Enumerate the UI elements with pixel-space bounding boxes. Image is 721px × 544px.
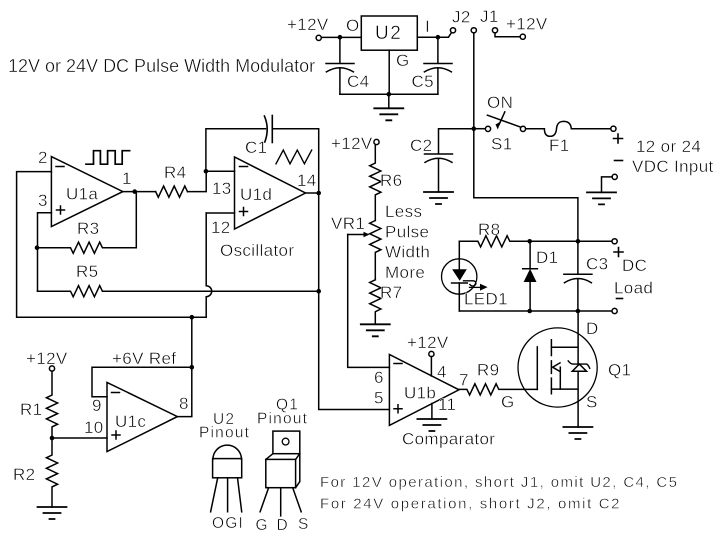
node C5 top	[436, 35, 441, 40]
terminal +12V at R1	[49, 366, 54, 371]
resistor R9 with wires	[459, 384, 537, 395]
Q1 body arrow	[553, 363, 560, 372]
svg-text:Oscillator: Oscillator	[220, 241, 294, 260]
svg-text:ON: ON	[487, 93, 513, 112]
svg-text:1: 1	[122, 169, 132, 188]
wire J2 pad down to S1 node	[473, 33, 475, 129]
svg-text:12 or 24: 12 or 24	[636, 137, 701, 156]
node U2 ground junction	[387, 92, 392, 97]
svg-text:Pulse: Pulse	[385, 222, 429, 241]
wire U1c feedback pin9	[92, 367, 192, 397]
svg-text:R9: R9	[477, 360, 499, 379]
svg-text:Load: Load	[614, 279, 653, 298]
svg-text:U1a: U1a	[66, 185, 98, 204]
wire U1a output	[123, 191, 156, 193]
svg-text:S1: S1	[491, 135, 513, 154]
node bottom-left junction	[190, 315, 195, 320]
svg-text:R1: R1	[20, 400, 42, 419]
jumper J2 pad A	[450, 28, 455, 33]
svg-text:D: D	[586, 319, 599, 338]
wire C4 C5 bottom	[340, 93, 438, 95]
resistor R8 with rail wires	[459, 236, 612, 247]
svg-text:VDC Input: VDC Input	[632, 157, 714, 176]
minus mark VDC input	[615, 160, 623, 162]
ground U1b pin11	[431, 404, 433, 420]
terminal +12V at U2 output	[316, 35, 321, 40]
node pin13 junction	[204, 169, 209, 174]
ground Q1 source	[563, 427, 592, 439]
svg-text:+6V Ref: +6V Ref	[112, 349, 176, 368]
svg-text:+12V: +12V	[407, 333, 449, 352]
ground R7	[361, 324, 390, 336]
svg-text:14: 14	[297, 171, 317, 190]
svg-text:OGI: OGI	[212, 515, 244, 532]
resistor R2 with wires	[46, 438, 57, 507]
wire pin4 stem	[430, 357, 432, 376]
wire C1 left	[206, 129, 266, 172]
terminal DC load negative	[612, 308, 617, 313]
svg-text:2: 2	[38, 148, 48, 167]
svg-text:C4: C4	[347, 72, 369, 91]
svg-text:5: 5	[374, 388, 384, 407]
Q1 body connection	[559, 367, 561, 389]
node U1a output	[132, 189, 137, 194]
svg-text:R3: R3	[77, 219, 99, 238]
wire +12V to U2 O pin	[321, 36, 361, 38]
node D1 bottom junction	[527, 309, 532, 314]
svg-text:I: I	[425, 17, 430, 36]
square wave symbol	[86, 151, 130, 165]
svg-text:C1: C1	[245, 138, 267, 157]
ground U2	[388, 94, 390, 108]
svg-text:G: G	[256, 517, 269, 534]
svg-text:Comparator: Comparator	[402, 430, 495, 449]
svg-text:U2: U2	[375, 23, 402, 44]
fuse F1	[526, 121, 611, 136]
svg-text:S: S	[298, 516, 310, 533]
svg-text:10: 10	[84, 418, 104, 437]
wire U1c pin10	[52, 437, 107, 439]
op-amp U1c	[107, 382, 177, 451]
svg-text:Width: Width	[385, 243, 430, 262]
wire node to S1	[474, 128, 486, 130]
jumper J1 pad A	[492, 28, 497, 33]
wire load bottom rail	[459, 310, 612, 312]
capacitor C2 with wire	[425, 129, 474, 192]
wire U1b pin6 to VR1 wiper	[348, 235, 390, 368]
svg-text:4: 4	[437, 363, 447, 382]
terminal +12V at R6	[374, 139, 379, 144]
resistor R7 with wires	[370, 280, 381, 325]
capacitor C4	[326, 37, 354, 94]
node R3 left junction	[35, 245, 40, 250]
svg-text:+12V: +12V	[331, 134, 373, 153]
terminal +12V at U1b pin4	[429, 351, 434, 356]
svg-text:G: G	[501, 392, 515, 411]
svg-text:C2: C2	[410, 136, 432, 155]
wire Q1 drain-source vertical	[577, 311, 579, 427]
svg-text:12V or 24V DC Pulse Width Modu: 12V or 24V DC Pulse Width Modulator	[8, 56, 315, 76]
op-amp U1d	[235, 157, 306, 229]
terminal DC load positive	[612, 239, 617, 244]
svg-text:R5: R5	[76, 262, 98, 281]
svg-text:11: 11	[438, 395, 456, 414]
node D1 top junction	[527, 239, 532, 244]
node R1/R2 junction	[50, 436, 55, 441]
Q1 body diode	[568, 361, 590, 371]
jumper J2 pad B	[471, 28, 476, 33]
regulator U2 box	[361, 16, 417, 50]
svg-text:8: 8	[179, 394, 189, 413]
node S1/C2 junction	[472, 126, 477, 131]
label Q1 pinout	[257, 397, 308, 428]
svg-text:6: 6	[374, 368, 384, 387]
terminal VDC input negative	[612, 174, 617, 179]
svg-text:For 12V operation, short J1, o: For 12V operation, short J1, omit U2, C4…	[320, 474, 678, 491]
switch S1 right terminal	[520, 126, 525, 131]
ground C2	[424, 192, 453, 204]
wire VDC negative to ground	[602, 177, 613, 193]
svg-text:C5: C5	[412, 72, 434, 91]
svg-text:VR1: VR1	[331, 214, 365, 233]
potentiometer VR1	[370, 221, 381, 280]
svg-text:12: 12	[211, 218, 231, 237]
capacitor C5	[424, 37, 452, 94]
svg-text:More: More	[385, 263, 425, 282]
svg-text:+12V: +12V	[506, 15, 548, 34]
wire U1a pin2 to +6V net	[17, 172, 207, 318]
wire U1d output to U1b pin5	[319, 193, 390, 410]
svg-text:13: 13	[212, 179, 232, 198]
svg-text:R4: R4	[164, 163, 186, 182]
diode D1	[523, 241, 538, 311]
triangle wave symbol	[276, 150, 312, 164]
resistor R5 with wires	[38, 286, 319, 297]
Q1 gate electrode	[536, 347, 538, 390]
svg-text:F1: F1	[549, 136, 570, 155]
resistor R3 with wires	[37, 192, 136, 254]
svg-text:S: S	[586, 392, 598, 411]
node load rail top	[576, 239, 581, 244]
svg-text:U1c: U1c	[115, 412, 146, 431]
plus mark DC load	[614, 248, 623, 257]
node R5 to output junction	[316, 289, 321, 294]
svg-text:J1: J1	[480, 7, 499, 26]
svg-text:U1d: U1d	[240, 185, 272, 204]
svg-text:DC: DC	[622, 256, 647, 275]
svg-text:Q1: Q1	[608, 360, 631, 379]
transistor Q1 body circle	[518, 328, 597, 407]
resistor R6 with wires	[370, 145, 381, 221]
Q1 channel segments	[550, 340, 552, 394]
wire J1 pad to +12V	[495, 33, 520, 37]
svg-text:Less: Less	[385, 202, 422, 221]
Q1 drain and source stubs	[551, 347, 578, 389]
svg-text:For 24V operation, short J2, o: For 24V operation, short J2, omit C2	[320, 496, 621, 513]
svg-text:D: D	[277, 517, 289, 534]
svg-text:R7: R7	[380, 283, 402, 302]
minus mark DC load	[617, 298, 623, 300]
ground R2	[38, 507, 67, 519]
switch S1 lever	[487, 115, 520, 127]
label U2 pinout	[199, 411, 250, 442]
svg-text:9: 9	[92, 396, 102, 415]
svg-text:U1b: U1b	[404, 383, 436, 402]
svg-text:3: 3	[38, 191, 48, 210]
svg-text:R6: R6	[380, 171, 402, 190]
terminal VDC input positive	[611, 126, 616, 131]
wire U1c output to +6V net	[177, 317, 191, 416]
wire U2 G pin	[388, 50, 390, 94]
node C3 bottom junction	[576, 309, 581, 314]
wire +6V net vertical with hop over R5	[206, 213, 212, 317]
jumper J1 pad B	[520, 34, 525, 39]
wire U1a pin3 down	[38, 213, 52, 291]
svg-text:J2: J2	[452, 8, 471, 27]
wire U1d output	[306, 192, 319, 194]
svg-text:R2: R2	[13, 465, 35, 484]
svg-text:C3: C3	[586, 255, 608, 274]
svg-text:G: G	[396, 51, 410, 70]
svg-text:D1: D1	[536, 248, 558, 267]
svg-text:O: O	[346, 16, 360, 35]
node U1d output	[316, 191, 321, 196]
capacitor C1	[264, 116, 272, 143]
svg-text:LED1: LED1	[464, 290, 508, 309]
resistor R1 with wires	[46, 371, 57, 438]
U2 pinout TO-92 package	[211, 445, 242, 512]
switch S1 actuation arrow	[496, 112, 505, 130]
op-amp U1a	[51, 157, 122, 227]
switch S1 left terminal	[485, 126, 490, 131]
plus mark VDC input	[614, 134, 623, 143]
wire U1d pin12	[206, 212, 234, 214]
node C4 top	[338, 35, 343, 40]
capacitor C3	[564, 241, 592, 311]
svg-text:Pinout: Pinout	[257, 411, 308, 428]
op-amp U1b	[389, 355, 459, 426]
svg-text:Pinout: Pinout	[199, 425, 250, 442]
node +6V ref junction	[190, 365, 195, 370]
ground VDC input	[587, 192, 616, 204]
Q1 pinout TO-220 package	[260, 431, 301, 516]
svg-text:R8: R8	[478, 220, 500, 239]
svg-text:7: 7	[459, 370, 469, 389]
LED LED1	[442, 241, 477, 311]
wire C1 right to output	[272, 129, 318, 193]
LED1 light arrows	[464, 281, 488, 291]
wire R4 to U1d pin13	[188, 171, 235, 191]
wire U2 I pin to J2	[417, 33, 451, 38]
svg-text:+12V: +12V	[26, 349, 68, 368]
wire main rail S1 node to load rail	[474, 129, 578, 242]
resistor R4	[156, 186, 188, 197]
VR1 wiper arrow	[348, 232, 370, 238]
svg-text:+12V: +12V	[287, 15, 329, 34]
